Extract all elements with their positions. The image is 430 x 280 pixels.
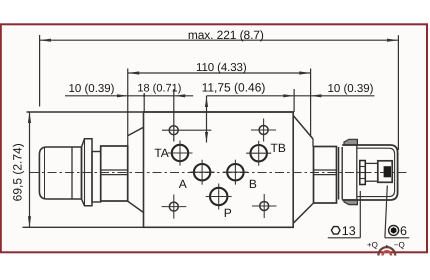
cap outer shell (342, 145, 397, 200)
dim max.221 line (40, 39, 399, 41)
body bottom edge with extension (23, 226, 294, 228)
collar inner line (84, 139, 86, 206)
ext line left for max.221 (39, 35, 41, 107)
svg-text:−Q: −Q (394, 241, 405, 250)
dim 110 right arrow (299, 71, 310, 74)
port TB (251, 145, 267, 161)
svg-text:max. 221 (8.7): max. 221 (8.7) (188, 28, 264, 42)
hex flat line right nut upper (314, 169, 337, 171)
dim row line right segment (207, 95, 375, 97)
ext line right for max.221 (397, 35, 399, 150)
label 13 underline (328, 237, 361, 239)
bolt hole TR (259, 126, 268, 135)
stack divider 3 (360, 178, 366, 180)
adjuster hex stack (360, 161, 366, 185)
bolt hole BR (260, 202, 269, 211)
dim 110 line (128, 72, 311, 74)
right cone edge vertical (312, 139, 314, 147)
port TA cross (168, 152, 193, 154)
svg-text:B: B (249, 177, 257, 191)
port A (194, 164, 210, 180)
leader to 6 (385, 186, 387, 238)
ext line at body left edge (143, 93, 145, 112)
bolt hole BL cross (162, 206, 187, 208)
ext line for 110 right (310, 69, 312, 138)
port A cross (190, 171, 215, 173)
left cone top slant (128, 127, 144, 136)
hex wrench symbol (331, 227, 340, 234)
bolt hole BL (169, 202, 178, 211)
collar (82, 139, 93, 206)
hex nut right (314, 147, 337, 204)
adjust arc tick (386, 245, 388, 248)
port P cross (206, 196, 232, 198)
svg-text:6: 6 (400, 224, 407, 238)
bolt hole TL cross horizontal extended (162, 129, 211, 131)
knob (39, 147, 81, 199)
svg-text:10 (0.39): 10 (0.39) (68, 83, 114, 95)
centerline (30, 172, 407, 174)
hex flat line left nut upper (101, 169, 128, 171)
socket symbol hexagon (391, 227, 397, 233)
port B cross (223, 171, 248, 173)
adjust arcs outer (378, 247, 395, 255)
socket screw block (378, 161, 392, 183)
washer line 1 (338, 147, 340, 200)
port P (210, 188, 227, 205)
arrow left-pointing at 174.4 (174, 94, 185, 97)
svg-text:TA: TA (154, 146, 168, 160)
svg-text:69,5 (2.74): 69,5 (2.74) (11, 143, 25, 201)
knob inner line (44, 147, 46, 199)
svg-text:A: A (179, 177, 187, 191)
cap bottom wing (344, 200, 357, 205)
svg-text:10 (0.39): 10 (0.39) (327, 83, 373, 95)
valve body (144, 112, 294, 227)
dim row line left segment (65, 95, 193, 97)
pointer up arrow (205, 97, 208, 108)
port TB cross (246, 152, 271, 154)
neck (92, 152, 101, 203)
hex flat line right nut lower (314, 174, 337, 176)
port B (227, 164, 243, 180)
ext line at bolt hole column (173, 89, 175, 142)
bolt hole TR cross (251, 129, 276, 131)
socket symbol circle (389, 225, 399, 235)
svg-text:13: 13 (342, 224, 356, 238)
pointer line 11.75 (206, 96, 208, 143)
leader to 13 (359, 191, 361, 238)
dim 69.5 up arrow (28, 112, 31, 123)
cap top wing (344, 139, 357, 145)
stack divider 2 (360, 172, 366, 174)
bolt hole TL (169, 126, 178, 135)
body top edge with extension (27, 111, 294, 113)
svg-text:P: P (224, 206, 232, 220)
dim 110 left arrow (128, 71, 139, 74)
svg-text:18 (0.71): 18 (0.71) (137, 83, 181, 95)
right cone top slant (293, 116, 313, 139)
arrow left-pointing at 310.6 (311, 94, 322, 97)
ext line at body right edge (293, 89, 295, 112)
shaft top line (365, 162, 378, 164)
left cone bottom slant (127, 201, 143, 213)
right cone bottom slant (293, 204, 313, 224)
dim 69.5 vertical line (29, 112, 31, 227)
hex flat line left nut lower (101, 174, 128, 176)
cap inner wall (357, 148, 395, 196)
stack divider 1 (360, 166, 366, 168)
washer line 2 (341, 147, 343, 200)
dim 69.5 down arrow (28, 216, 31, 227)
port TA (172, 145, 188, 161)
shaft bottom line (365, 180, 378, 182)
knob face line (71, 147, 73, 199)
dim max.221 left arrow (40, 39, 51, 42)
dim max.221 right arrow (387, 39, 398, 42)
arrow right-pointing at 127.8 (117, 94, 128, 97)
svg-text:110 (4.33): 110 (4.33) (196, 62, 247, 74)
svg-text:+Q: +Q (367, 241, 378, 250)
adjust arcs inner (383, 251, 392, 255)
hex socket dark (384, 166, 391, 177)
arrow right-pointing at 294.1 (283, 94, 294, 97)
svg-text:11,75 (0.46): 11,75 (0.46) (202, 81, 266, 95)
svg-text:TB: TB (271, 141, 286, 155)
pointer down arrow (205, 132, 208, 143)
bolt hole BR cross (252, 205, 277, 207)
label 6 underline (385, 237, 409, 239)
arrow right-pointing at 144.2 (143, 93, 146, 96)
cap cavity left wall (356, 145, 358, 200)
ext line for 110 left (127, 69, 129, 147)
hex nut left (101, 146, 128, 201)
